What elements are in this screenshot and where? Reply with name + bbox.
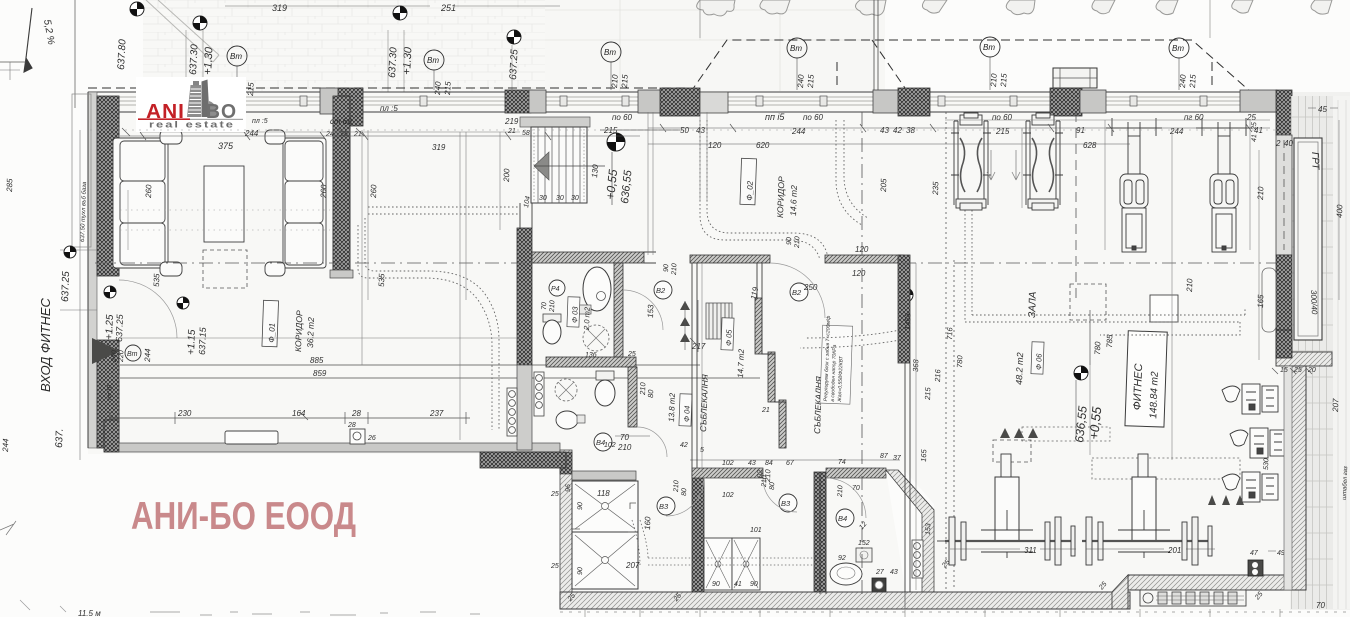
svg-text:165: 165: [1256, 294, 1265, 308]
svg-text:210: 210: [794, 236, 801, 249]
svg-text:+1.30: +1.30: [202, 46, 215, 75]
bench press sets bottom: [937, 454, 1212, 565]
svg-text:91: 91: [1076, 126, 1085, 135]
svg-text:87: 87: [880, 453, 889, 460]
svg-text:620: 620: [756, 141, 770, 150]
rotated dims middle: [638, 312, 964, 483]
5.2% slope arrow: [24, 8, 32, 72]
svg-text:251: 251: [440, 3, 456, 13]
white rect in zala: [1150, 295, 1178, 322]
svg-text:160: 160: [643, 516, 652, 530]
interior wall right of living room: [333, 96, 350, 276]
svg-text:216: 216: [933, 368, 942, 383]
svg-text:375: 375: [218, 141, 234, 151]
duct curves corridor02: [700, 120, 868, 260]
svg-text:210: 210: [610, 74, 620, 89]
svg-text:535: 535: [152, 273, 161, 287]
svg-text:Вт: Вт: [604, 48, 616, 57]
svg-text:235: 235: [931, 181, 941, 196]
svg-text:90: 90: [577, 502, 584, 510]
svg-text:40: 40: [1284, 139, 1293, 148]
duct dotted in fitness: [800, 210, 1245, 348]
svg-text:260: 260: [369, 184, 379, 199]
dressing room 04 partition (stepped): [755, 298, 786, 448]
svg-text:90: 90: [712, 581, 720, 588]
top band + corner: [480, 452, 566, 468]
svg-text:210: 210: [673, 480, 680, 493]
svg-text:84: 84: [765, 460, 773, 467]
svg-text:43: 43: [880, 126, 889, 135]
corridor 01 labels: [262, 300, 279, 346]
B2 circles and door dims right of bath: [654, 281, 672, 299]
svg-text:67: 67: [786, 460, 795, 467]
svg-text:70: 70: [620, 433, 629, 442]
svg-text:25: 25: [1293, 367, 1302, 374]
svg-text:Ф 03: Ф 03: [570, 306, 580, 324]
svg-text:43: 43: [748, 460, 756, 467]
svg-text:КОРИДОР: КОРИДОР: [775, 176, 786, 218]
svg-text:240: 240: [1178, 74, 1188, 89]
svg-text:219: 219: [504, 117, 519, 126]
shower pair: [704, 538, 760, 590]
svg-text:Вт: Вт: [427, 56, 439, 65]
svg-text:859: 859: [313, 369, 327, 378]
svg-text:215: 215: [806, 74, 816, 89]
svg-text:48.2 m2: 48.2 m2: [1014, 352, 1025, 385]
svg-text:215: 215: [620, 74, 630, 89]
svg-text:АНИ-БО ЕООД: АНИ-БО ЕООД: [131, 495, 356, 538]
svg-text:СЪБЛЕКАЛНЯ: СЪБЛЕКАЛНЯ: [698, 374, 710, 432]
svg-text:28: 28: [351, 409, 361, 418]
thin partition lines misc: [520, 203, 910, 592]
svg-text:102: 102: [604, 442, 616, 449]
left vertical site line: [0, 0, 75, 108]
svg-text:38: 38: [906, 126, 915, 135]
svg-text:Ф_01: Ф_01: [267, 323, 277, 343]
svg-text:200: 200: [502, 168, 512, 183]
svg-text:230: 230: [177, 409, 192, 418]
svg-text:Вт: Вт: [127, 351, 138, 358]
svg-text:ФИТНЕС: ФИТНЕС: [1132, 363, 1146, 410]
svg-text:210: 210: [638, 381, 647, 396]
svg-text:47: 47: [1250, 550, 1259, 557]
svg-text:210: 210: [617, 443, 632, 452]
svg-text:ВХОД ФИТНЕС: ВХОД ФИТНЕС: [38, 297, 53, 392]
svg-text:1453: 1453: [903, 312, 913, 330]
svg-text:В4: В4: [838, 514, 847, 523]
toilet B: [596, 371, 614, 380]
svg-text:В2: В2: [792, 288, 802, 297]
svg-text:260: 260: [319, 184, 329, 199]
shower B + sink B: [555, 379, 577, 401]
svg-text:90: 90: [577, 567, 584, 575]
svg-text:90: 90: [750, 581, 758, 588]
svg-text:165: 165: [919, 448, 928, 462]
building icon: [187, 80, 217, 118]
svg-text:15: 15: [1280, 367, 1288, 374]
svg-text:штабел газ: штабел газ: [1342, 466, 1349, 500]
svg-text:102: 102: [722, 460, 734, 467]
walls between corridor02 and dressing rooms: [690, 255, 770, 263]
svg-text:96: 96: [565, 484, 572, 492]
svg-text:217: 217: [691, 342, 706, 351]
bottom edge faint marks: [150, 609, 1350, 617]
svg-text:Ф 05: Ф 05: [724, 329, 734, 347]
svg-text:628: 628: [1083, 141, 1097, 150]
svg-text:215: 215: [995, 127, 1010, 136]
svg-text:130: 130: [590, 164, 600, 179]
svg-text:30: 30: [571, 195, 579, 202]
svg-text:14.7 m2: 14.7 m2: [736, 348, 746, 378]
svg-text:80: 80: [681, 488, 688, 496]
svg-text:244: 244: [244, 129, 259, 138]
svg-text:пл 10: пл 10: [107, 384, 114, 400]
svg-text:319: 319: [272, 3, 287, 13]
svg-text:210: 210: [549, 300, 556, 313]
svg-text:пг 60: пг 60: [1184, 113, 1204, 122]
svg-text:153: 153: [925, 523, 932, 535]
long dash-dot axis lines: [95, 112, 1290, 595]
svg-text:Ф 06: Ф 06: [1034, 353, 1044, 371]
svg-text:716: 716: [945, 326, 954, 340]
dotted ducts bottom: [632, 520, 818, 565]
sofa 1: [113, 138, 168, 268]
svg-text:13.8 m2: 13.8 m2: [667, 392, 677, 422]
svg-text:43: 43: [696, 126, 705, 135]
svg-text:120: 120: [852, 269, 866, 278]
svg-text:207: 207: [625, 561, 640, 570]
svg-text:В3: В3: [659, 502, 669, 511]
svg-text:+1.30: +1.30: [401, 46, 414, 75]
svg-text:164: 164: [292, 409, 306, 418]
svg-text:210: 210: [989, 73, 999, 88]
dims row under dressing rooms: [700, 447, 889, 467]
svg-text:210: 210: [1185, 278, 1195, 293]
svg-text:244: 244: [1, 438, 11, 453]
svg-text:Вт: Вт: [983, 43, 995, 52]
svg-text:237: 237: [429, 409, 444, 418]
svg-text:118: 118: [597, 489, 610, 498]
svg-text:637.: 637.: [54, 428, 66, 448]
svg-text:637.30: 637.30: [387, 47, 400, 79]
svg-text:41: 41: [734, 581, 742, 588]
diagonal walk top-left: [146, 0, 219, 62]
diagonal corner wall + kOO: [886, 472, 934, 594]
svg-text:43: 43: [890, 569, 898, 576]
svg-text:2.0 m2: 2.0 m2: [582, 306, 592, 331]
svg-text:637.80: 637.80: [116, 39, 129, 71]
top-right corner block: [1240, 90, 1277, 112]
svg-text:21: 21: [761, 407, 770, 414]
coffee table: [204, 166, 244, 242]
rug dashed: [203, 250, 247, 288]
svg-text:36.2 m2: 36.2 m2: [305, 317, 316, 348]
svg-text:400: 400: [1335, 204, 1344, 218]
underline: [138, 118, 190, 120]
svg-text:530: 530: [1263, 458, 1270, 470]
shaft grille + arrows near corridor: [706, 303, 732, 339]
svg-text:Вт: Вт: [790, 44, 802, 53]
fitness label box: [1125, 331, 1167, 427]
svg-text:250: 250: [803, 283, 818, 292]
Вт window circles row: [227, 37, 1189, 70]
lat pulldown machines right column: [1222, 384, 1286, 502]
dressing 05 labels: [721, 318, 734, 350]
svg-text:210: 210: [671, 263, 678, 276]
wc fixtures: [830, 563, 862, 585]
svg-text:201: 201: [1167, 546, 1181, 555]
svg-text:780: 780: [955, 354, 964, 368]
svg-text:2: 2: [1275, 139, 1281, 148]
svg-text:28: 28: [347, 422, 356, 429]
svg-text:300/40: 300/40: [1309, 290, 1319, 315]
svg-text:по 60: по 60: [803, 113, 824, 122]
svg-text:319: 319: [432, 143, 446, 152]
svg-text:30: 30: [539, 195, 547, 202]
sink: [583, 267, 611, 311]
svg-text:50: 50: [680, 126, 689, 135]
svg-text:26: 26: [367, 435, 376, 442]
outside boundary strip with text: [72, 94, 91, 247]
svg-text:В3: В3: [781, 499, 791, 508]
svg-text:real estate: real estate: [149, 120, 235, 131]
svg-text:пл :5: пл :5: [380, 104, 398, 113]
svg-text:25: 25: [550, 563, 559, 570]
svg-text:Ф_02: Ф_02: [745, 180, 755, 201]
svg-text:Ф 04: Ф 04: [682, 405, 692, 422]
sofa 2: [283, 138, 326, 268]
weights storage rack bottom right: [1140, 590, 1246, 606]
svg-text:637.25: 637.25: [508, 49, 521, 81]
svg-text:42: 42: [893, 126, 902, 135]
svg-text:КОРИДОР: КОРИДОР: [293, 310, 304, 352]
svg-text:240: 240: [796, 74, 806, 89]
svg-text:148.84 m2: 148.84 m2: [1148, 371, 1161, 419]
gym machines top (type 2: smith racks): [1106, 118, 1252, 252]
svg-text:244: 244: [143, 348, 153, 363]
svg-text:244: 244: [1169, 127, 1184, 136]
svg-text:45: 45: [1318, 105, 1327, 114]
svg-text:153: 153: [646, 304, 655, 318]
svg-text:+1.15: +1.15: [186, 329, 198, 355]
svg-text:Вт: Вт: [230, 52, 242, 61]
clouds / trees along top: [697, 0, 1332, 16]
svg-text:244: 244: [791, 127, 806, 136]
GRT tall box: [1294, 138, 1322, 340]
corner transition at y345: [1276, 352, 1332, 366]
toilet A: [543, 314, 561, 322]
paving area top-left: [143, 0, 885, 91]
svg-text:285: 285: [5, 178, 15, 193]
svg-text:14.6 m2: 14.6 m2: [788, 185, 799, 216]
bottom wall of corridor 01: [104, 443, 560, 452]
svg-text:30: 30: [556, 195, 564, 202]
corner block with circles: [1248, 560, 1263, 576]
svg-text:пл :5: пл :5: [252, 118, 268, 125]
device on wall near 1055: [1053, 68, 1097, 88]
svg-text:215: 215: [1188, 74, 1198, 89]
labels bath A: [549, 280, 565, 296]
svg-text:70: 70: [541, 302, 548, 310]
svg-text:210: 210: [763, 468, 772, 483]
two big showers: [572, 481, 638, 589]
svg-text:25: 25: [550, 491, 559, 498]
svg-text:637.25: 637.25: [60, 271, 72, 302]
svg-text:101: 101: [750, 527, 762, 534]
wall blocks: [320, 88, 340, 114]
survey markers: [130, 2, 913, 302]
left diag hatch wall: [560, 450, 572, 596]
svg-text:ЗАЛА: ЗАЛА: [1027, 291, 1039, 318]
svg-text:В2: В2: [656, 286, 666, 295]
shower A dashed circle: [583, 325, 609, 351]
svg-text:70: 70: [1316, 601, 1325, 610]
svg-text:220: 220: [118, 350, 125, 363]
duct dotted curves left-center: [358, 207, 520, 430]
svg-text:785: 785: [1105, 334, 1114, 348]
bath A walls: [532, 252, 644, 263]
svg-text:311: 311: [1024, 546, 1037, 555]
bath B walls: [546, 357, 636, 367]
svg-text:205: 205: [879, 178, 889, 193]
svg-text:90: 90: [663, 264, 670, 272]
door opening + entrance arrow: [92, 338, 120, 364]
svg-text:Р4: Р4: [551, 286, 560, 293]
svg-text:637.30: 637.30: [188, 44, 201, 76]
svg-text:260: 260: [144, 184, 154, 199]
svg-text:215: 215: [923, 386, 932, 401]
svg-text:215: 215: [999, 73, 1009, 88]
svg-text:80: 80: [769, 482, 776, 490]
svg-text:120: 120: [708, 141, 722, 150]
svg-text:ст 60: ст 60: [330, 117, 352, 126]
svg-text:по 60: по 60: [612, 113, 633, 122]
svg-text:37: 37: [893, 455, 902, 462]
svg-text:25: 25: [1246, 113, 1256, 122]
svg-text:102: 102: [722, 492, 734, 499]
svg-text:215: 215: [246, 82, 256, 97]
svg-text:пп i5: пп i5: [765, 112, 785, 122]
svg-text:27: 27: [875, 569, 885, 576]
partition wall vertical: [692, 472, 704, 594]
lower right exterior wall: [1291, 366, 1306, 590]
svg-text:210: 210: [837, 485, 844, 498]
svg-text:11.5 м: 11.5 м: [78, 609, 101, 617]
svg-text:210: 210: [1256, 186, 1266, 201]
corridor 01 long dimension lines: [110, 365, 760, 418]
svg-text:780: 780: [1093, 341, 1102, 355]
svg-text:ГРТ: ГРТ: [1309, 152, 1321, 171]
wc room right: [814, 472, 826, 594]
svg-text:42: 42: [680, 442, 688, 449]
svg-text:90: 90: [786, 237, 793, 245]
label B4: [594, 433, 612, 451]
svg-text:41: 41: [1251, 134, 1258, 142]
svg-text:Вт: Вт: [1172, 44, 1184, 53]
svg-text:637.15: 637.15: [197, 326, 208, 355]
svg-text:535: 535: [377, 273, 386, 287]
svg-text:80: 80: [646, 389, 655, 398]
svg-text:152: 152: [858, 540, 870, 547]
svg-text:92: 92: [838, 555, 846, 562]
svg-text:885: 885: [310, 356, 324, 365]
window mullion ticks: [178, 96, 1207, 106]
svg-text:по 60: по 60: [992, 113, 1013, 122]
svg-text:207: 207: [1331, 398, 1341, 413]
dashed property boundary: [88, 40, 1252, 93]
svg-text:21: 21: [507, 128, 516, 135]
locker hooks columns: [534, 372, 544, 416]
svg-text:41: 41: [1254, 126, 1263, 135]
